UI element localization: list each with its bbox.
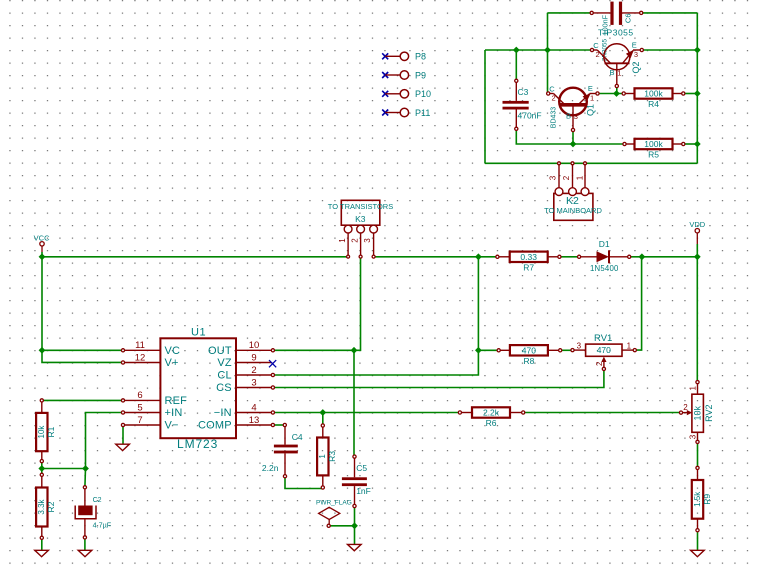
svg-text:B: B [609, 68, 614, 77]
svg-text:2.2k: 2.2k [483, 408, 500, 418]
svg-text:10k: 10k [37, 425, 46, 439]
svg-text:E: E [588, 84, 593, 93]
svg-text:BD433: BD433 [551, 107, 558, 129]
svg-text:B: B [566, 111, 571, 120]
svg-text:10: 10 [249, 340, 260, 351]
svg-text:P11: P11 [415, 108, 430, 118]
svg-text:3.3k: 3.3k [37, 498, 46, 514]
svg-text:RV2: RV2 [704, 405, 714, 422]
svg-text:REF: REF [165, 395, 188, 407]
svg-text:100k: 100k [644, 89, 663, 99]
svg-text:13: 13 [249, 415, 260, 426]
svg-text:100k: 100k [644, 139, 663, 149]
svg-text:+IN: +IN [165, 407, 183, 419]
svg-text:470: 470 [522, 345, 536, 355]
svg-text:Q1: Q1 [585, 104, 595, 116]
svg-text:7: 7 [137, 415, 142, 426]
svg-text:11: 11 [135, 340, 145, 351]
svg-text:C5: C5 [356, 463, 367, 473]
svg-text:C6: C6 [623, 14, 632, 24]
svg-text:1: 1 [575, 175, 584, 180]
svg-text:−IN: −IN [214, 407, 232, 419]
svg-text:0.33: 0.33 [520, 252, 537, 262]
svg-text:RV1: RV1 [594, 333, 612, 344]
svg-text:2: 2 [562, 175, 571, 180]
svg-text:3: 3 [688, 434, 697, 439]
svg-text:R6: R6 [486, 418, 497, 428]
svg-text:1: 1 [318, 454, 327, 459]
svg-text:3: 3 [251, 377, 256, 388]
svg-text:C2: C2 [93, 497, 102, 504]
svg-text:TIP3055: TIP3055 [598, 27, 634, 37]
svg-text:TO TRANSISTORS: TO TRANSISTORS [328, 202, 393, 211]
svg-text:1: 1 [688, 386, 697, 391]
svg-text:R3: R3 [327, 451, 337, 462]
svg-text:1: 1 [617, 69, 621, 78]
svg-text:LM723: LM723 [177, 437, 218, 451]
svg-text:D1: D1 [599, 239, 610, 249]
svg-text:E: E [632, 40, 637, 49]
svg-text:P8: P8 [415, 52, 426, 62]
svg-text:6: 6 [137, 390, 142, 401]
svg-text:P10: P10 [415, 89, 431, 99]
svg-text:1: 1 [627, 342, 632, 351]
svg-text:3: 3 [574, 112, 578, 121]
svg-text:4.7µF: 4.7µF [93, 521, 112, 530]
svg-text:TO MAINBOARD: TO MAINBOARD [544, 206, 602, 215]
svg-text:1nF: 1nF [356, 486, 371, 496]
svg-text:K3: K3 [355, 214, 366, 224]
svg-text:V−: V− [165, 420, 179, 432]
svg-text:R5: R5 [648, 150, 659, 160]
svg-text:C: C [549, 85, 555, 94]
svg-text:Q2: Q2 [631, 61, 641, 73]
svg-text:9: 9 [251, 352, 256, 363]
svg-text:R7: R7 [523, 262, 534, 272]
svg-text:2: 2 [595, 361, 604, 366]
svg-text:12: 12 [135, 352, 146, 363]
svg-text:1: 1 [590, 94, 594, 103]
svg-text:C: C [593, 41, 599, 50]
svg-text:VC: VC [165, 345, 181, 357]
svg-text:R1: R1 [46, 426, 56, 437]
svg-text:CS: CS [216, 382, 232, 394]
svg-text:1: 1 [338, 238, 347, 243]
svg-text:VZ: VZ [217, 357, 232, 369]
svg-text:R4: R4 [648, 99, 659, 109]
svg-text:OUT: OUT [208, 345, 232, 357]
svg-text:COMP: COMP [198, 420, 232, 432]
svg-text:2: 2 [351, 238, 360, 243]
svg-text:2: 2 [683, 403, 688, 412]
svg-text:1N5400: 1N5400 [590, 264, 619, 273]
svg-text:2.2n: 2.2n [262, 463, 279, 473]
svg-text:R8: R8 [523, 356, 534, 366]
svg-text:C3: C3 [518, 87, 529, 97]
svg-text:CL: CL [217, 370, 231, 382]
svg-text:R2: R2 [46, 501, 56, 512]
svg-text:3: 3 [634, 50, 638, 59]
svg-text:470nF: 470nF [518, 111, 542, 121]
svg-text:3: 3 [363, 238, 372, 243]
svg-text:VDD: VDD [689, 220, 705, 229]
svg-text:V+: V+ [165, 357, 179, 369]
svg-text:470: 470 [597, 345, 611, 355]
svg-text:C4: C4 [292, 432, 303, 442]
svg-text:3: 3 [577, 342, 582, 351]
svg-text:2: 2 [251, 365, 256, 376]
svg-text:2: 2 [552, 94, 556, 103]
svg-text:R9: R9 [702, 494, 712, 505]
svg-text:1.5k: 1.5k [693, 491, 702, 507]
svg-text:5: 5 [137, 402, 142, 413]
svg-text:VCC: VCC [34, 234, 50, 243]
svg-text:P9: P9 [415, 70, 426, 80]
svg-text:U1: U1 [191, 327, 206, 339]
svg-text:3: 3 [548, 175, 557, 180]
svg-text:10k: 10k [692, 405, 702, 420]
svg-text:4: 4 [251, 402, 256, 413]
svg-text:PWR_FLAG: PWR_FLAG [316, 500, 352, 507]
svg-text:2: 2 [596, 50, 600, 59]
